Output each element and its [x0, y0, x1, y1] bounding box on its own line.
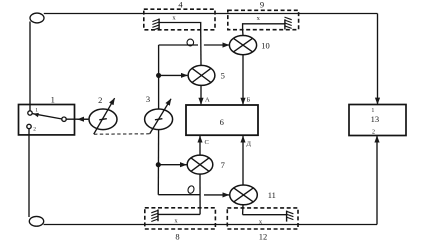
- switch S box 1: [19, 105, 75, 135]
- wire hop over vertical: [187, 39, 194, 46]
- arrow into switch: [78, 118, 89, 120]
- sensor box 4 dashed: [144, 9, 215, 30]
- sensor box 8 dashed: [145, 208, 216, 229]
- actuator block 13: [349, 105, 406, 136]
- wire top bus: [44, 13, 378, 15]
- sensor 8 lead: [158, 213, 200, 215]
- setter 3 (adjustable element): [145, 109, 173, 130]
- wire to multiplier 10 left part: [159, 44, 198, 46]
- wire bottom bus: [44, 224, 377, 226]
- wire left bus upper: [29, 22, 31, 112]
- wire multiplier 7 to block 6 port C: [199, 136, 201, 155]
- wire to multiplier 11 right part with arrow: [204, 194, 229, 196]
- svg-text:1: 1: [371, 108, 374, 114]
- switch lever: [32, 114, 62, 119]
- svg-text:11: 11: [268, 190, 276, 200]
- svg-text:7: 7: [221, 160, 225, 170]
- setter 3 adjustment arrow: [150, 99, 171, 134]
- svg-text:13: 13: [371, 114, 380, 124]
- svg-text:3: 3: [146, 94, 150, 104]
- sensor 9 lead: [243, 24, 285, 30]
- setter 2 (adjustable element): [89, 109, 117, 130]
- wire to multiplier 11 left part: [158, 194, 200, 196]
- switch terminal 1: [28, 111, 32, 115]
- wire multiplier 10 to block 6 port B: [242, 55, 244, 105]
- svg-text:1: 1: [51, 95, 55, 105]
- sensor 4 hatch: [152, 19, 159, 22]
- node junction to multiplier 7: [156, 163, 160, 167]
- multiplier 5: [188, 65, 215, 85]
- multiplier 11: [230, 185, 258, 205]
- wire multiplier 11 to block 6 port D: [242, 136, 244, 185]
- wire from switch terminal 2 down: [28, 129, 30, 217]
- wire switch to setter 2: [66, 118, 88, 120]
- sensor 12 lead: [243, 214, 287, 216]
- sensor 12 hatch: [286, 211, 293, 214]
- svg-text:9: 9: [260, 0, 264, 10]
- svg-text:8: 8: [175, 232, 179, 242]
- wire branch to multiplier 5: [159, 74, 188, 76]
- wire hop over vertical lower: [187, 185, 195, 194]
- switch lever end contact: [62, 117, 66, 121]
- sensor 8 hatch: [151, 210, 158, 213]
- setter 2 adjustment arrow: [94, 98, 115, 134]
- svg-text:С: С: [205, 139, 209, 146]
- svg-text:12: 12: [259, 232, 268, 242]
- sensor 4 lead: [159, 23, 201, 30]
- wire to multiplier 10 right part with arrow: [204, 44, 229, 46]
- wire multiplier 5 to block 6 port A: [200, 85, 202, 104]
- multiplier 10: [229, 36, 256, 55]
- svg-text:2: 2: [372, 129, 375, 135]
- multiplier 7: [187, 155, 213, 174]
- wire setter 3 up: [158, 45, 160, 109]
- svg-text:6: 6: [220, 117, 224, 127]
- sensor 9 hatch: [285, 20, 292, 23]
- node junction to multiplier 5: [157, 74, 161, 78]
- svg-text:А: А: [205, 96, 210, 103]
- sensor 12 wall bar: [286, 211, 288, 222]
- svg-text:5: 5: [221, 70, 225, 80]
- terminal loop bottom-left: [29, 216, 43, 226]
- wire multiplier 7 to sensor 8: [199, 174, 201, 214]
- svg-text:10: 10: [261, 40, 270, 50]
- wire right drop to block 13 input: [377, 14, 379, 105]
- wire setter 3 down: [157, 130, 159, 195]
- switch terminal 2: [27, 124, 31, 128]
- wire right rise to block 13 output: [376, 136, 378, 225]
- sensor 9 wall bar: [284, 19, 286, 29]
- sensor box 12 dashed: [227, 208, 298, 229]
- sensor 8 wall bar: [157, 209, 159, 221]
- wire sensor 4 to multiplier 5: [200, 30, 202, 66]
- svg-text:1: 1: [35, 107, 38, 113]
- terminal loop top-left: [30, 13, 44, 23]
- switch lever arrow: [33, 113, 39, 117]
- sensor 4 wall bar: [158, 19, 160, 30]
- computing block 6: [186, 105, 258, 135]
- wire sensor 9 to multiplier 10: [242, 30, 244, 36]
- sensor box 9 dashed: [228, 10, 299, 29]
- svg-text:2: 2: [33, 127, 36, 133]
- svg-text:Д: Д: [247, 140, 252, 147]
- wire multiplier 11 to sensor 12: [242, 205, 244, 215]
- svg-text:2: 2: [98, 95, 102, 105]
- mechanical linkage dashed: [94, 133, 150, 135]
- svg-text:Б: Б: [247, 96, 251, 103]
- wire branch to multiplier 7: [158, 164, 186, 166]
